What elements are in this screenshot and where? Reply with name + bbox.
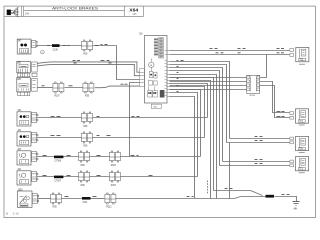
wire to row A — [170, 84, 208, 118]
wires R218 to sensor R2 — [260, 55, 290, 118]
header title bar — [5, 7, 144, 17]
sensor 1550 (row E) — [17, 189, 32, 207]
ECU right pin number marks — [165, 51, 167, 96]
splice C111 row E — [82, 197, 91, 200]
wire row1 — [36, 46, 140, 80]
wire 225 to ECU — [38, 86, 140, 88]
harness logo — [7, 8, 19, 17]
wire to row E — [170, 97, 195, 199]
junction unit R218 (mid right) — [247, 75, 260, 97]
connector R36 row A — [81, 112, 92, 123]
wire labels row1 — [47, 45, 108, 46]
svg-text:CT008: CT008 — [55, 160, 62, 162]
wires to sensor R4 — [220, 162, 290, 166]
connector R36 row E — [51, 193, 62, 204]
dashed wire segment — [207, 181, 209, 194]
instrument panel 260 (left, 2nd) — [17, 61, 31, 76]
svg-text:3-16: 3-16 — [13, 212, 19, 216]
fan wire labels — [177, 61, 184, 92]
connector R36 row D — [79, 171, 90, 182]
hatched block — [160, 90, 165, 98]
svg-text:ANTI-LOCK BRAKES: ANTI-LOCK BRAKES — [52, 7, 98, 11]
long drop wire from ECU left to row C — [130, 83, 140, 157]
svg-text:14A: 14A — [25, 13, 30, 16]
svg-text:X64: X64 — [129, 7, 138, 12]
connector R107 row D — [109, 171, 120, 182]
svg-text:B: B — [6, 212, 8, 216]
wire to row C — [170, 90, 201, 157]
op-amp U1 ABS computer unit 118 — [139, 34, 167, 109]
wire row C — [37, 156, 201, 158]
svg-text:R107: R107 — [55, 96, 61, 98]
connector on 225 — [32, 78, 38, 91]
wheel sensor unit R2 — [290, 109, 309, 123]
stop lamp switch 161 (row B) — [17, 130, 31, 146]
fan staircase wires from ECU right pins — [170, 62, 247, 199]
svg-text:C108: C108 — [53, 49, 59, 51]
wire to row B — [170, 87, 205, 138]
connector on 160 — [32, 113, 38, 123]
internal solenoid valves — [148, 59, 157, 86]
quartet to junction R218 — [170, 77, 247, 79]
theta marker — [41, 50, 45, 54]
connector on 260 — [32, 62, 38, 77]
connector R107 on 225 wire — [53, 82, 64, 93]
wheel sensor 150 (row C) — [17, 149, 31, 165]
connector R36 row B — [81, 132, 92, 143]
svg-text:1550: 1550 — [18, 189, 24, 191]
wire to ground bundle c — [170, 81, 211, 199]
svg-text:105: 105 — [132, 13, 137, 16]
wire to rear sensor R4 b — [170, 71, 220, 166]
svg-text:CT007: CT007 — [55, 180, 62, 182]
wire row B — [37, 137, 205, 139]
svg-text:C111: C111 — [83, 202, 89, 204]
wire row D — [37, 176, 198, 178]
connector R212 row E — [105, 193, 116, 204]
wires to sensor R3 — [227, 139, 290, 143]
splice CT008 row C — [54, 156, 63, 159]
wire to ground bundle b — [170, 78, 214, 191]
wire to front sensor R3 b — [170, 65, 227, 143]
connector on 247 — [32, 40, 38, 47]
splice CT007 row D — [54, 176, 63, 179]
wheel sensor unit R1 (top right) — [290, 47, 309, 61]
svg-text:R107: R107 — [111, 165, 117, 167]
pump motor M circle — [149, 62, 154, 67]
wire ECU pin1 to sensor R1 — [170, 50, 290, 52]
connector on 1550 — [32, 194, 38, 204]
label box 784 under unit — [151, 104, 161, 108]
wheel sensor unit R4 — [290, 157, 309, 171]
wire row A — [37, 117, 208, 119]
svg-text:MH: MH — [294, 209, 298, 211]
svg-text:R218: R218 — [250, 95, 256, 97]
bottom internal elements — [148, 87, 158, 98]
wheel sensor 151 (row D) — [17, 169, 31, 185]
ECU right pin stubs — [167, 51, 170, 97]
wire to front sensor R3 a — [170, 62, 230, 139]
brake switch 160 (row A) — [17, 110, 31, 126]
sensor footnote marks — [299, 64, 305, 173]
warning lamp unit 247 (top-left) — [17, 39, 31, 54]
connector R36 row C — [79, 151, 90, 162]
connector R36b on 225 wire — [83, 82, 94, 93]
ground run wires — [214, 191, 297, 202]
wire row E — [38, 198, 231, 200]
svg-text:R212: R212 — [106, 206, 112, 208]
svg-text:R107: R107 — [111, 185, 117, 187]
svg-text:M: M — [150, 65, 152, 67]
connector R107 row C — [109, 151, 120, 162]
ECU left pin connector column — [140, 69, 145, 87]
connector on 161 — [32, 133, 38, 143]
wire to rear sensor R4 a — [170, 68, 223, 162]
wire to row D — [170, 93, 198, 177]
splice C1 on row1 — [52, 44, 60, 47]
wheel sensor unit R3 — [290, 137, 309, 151]
connector R36 row1 — [82, 40, 93, 51]
connector on 150 — [32, 152, 38, 162]
ground symbol — [293, 202, 300, 206]
wire to ground bundle a — [170, 75, 217, 199]
wire pair 260 to ECU — [37, 62, 139, 76]
diagnostic socket 225 (left, 3rd) — [17, 78, 31, 96]
splice MH ground — [266, 195, 275, 198]
connector on 151 — [32, 172, 38, 182]
wire ECU pin2 to sensor R1 — [170, 54, 290, 56]
internal connector stack top — [154, 38, 163, 58]
